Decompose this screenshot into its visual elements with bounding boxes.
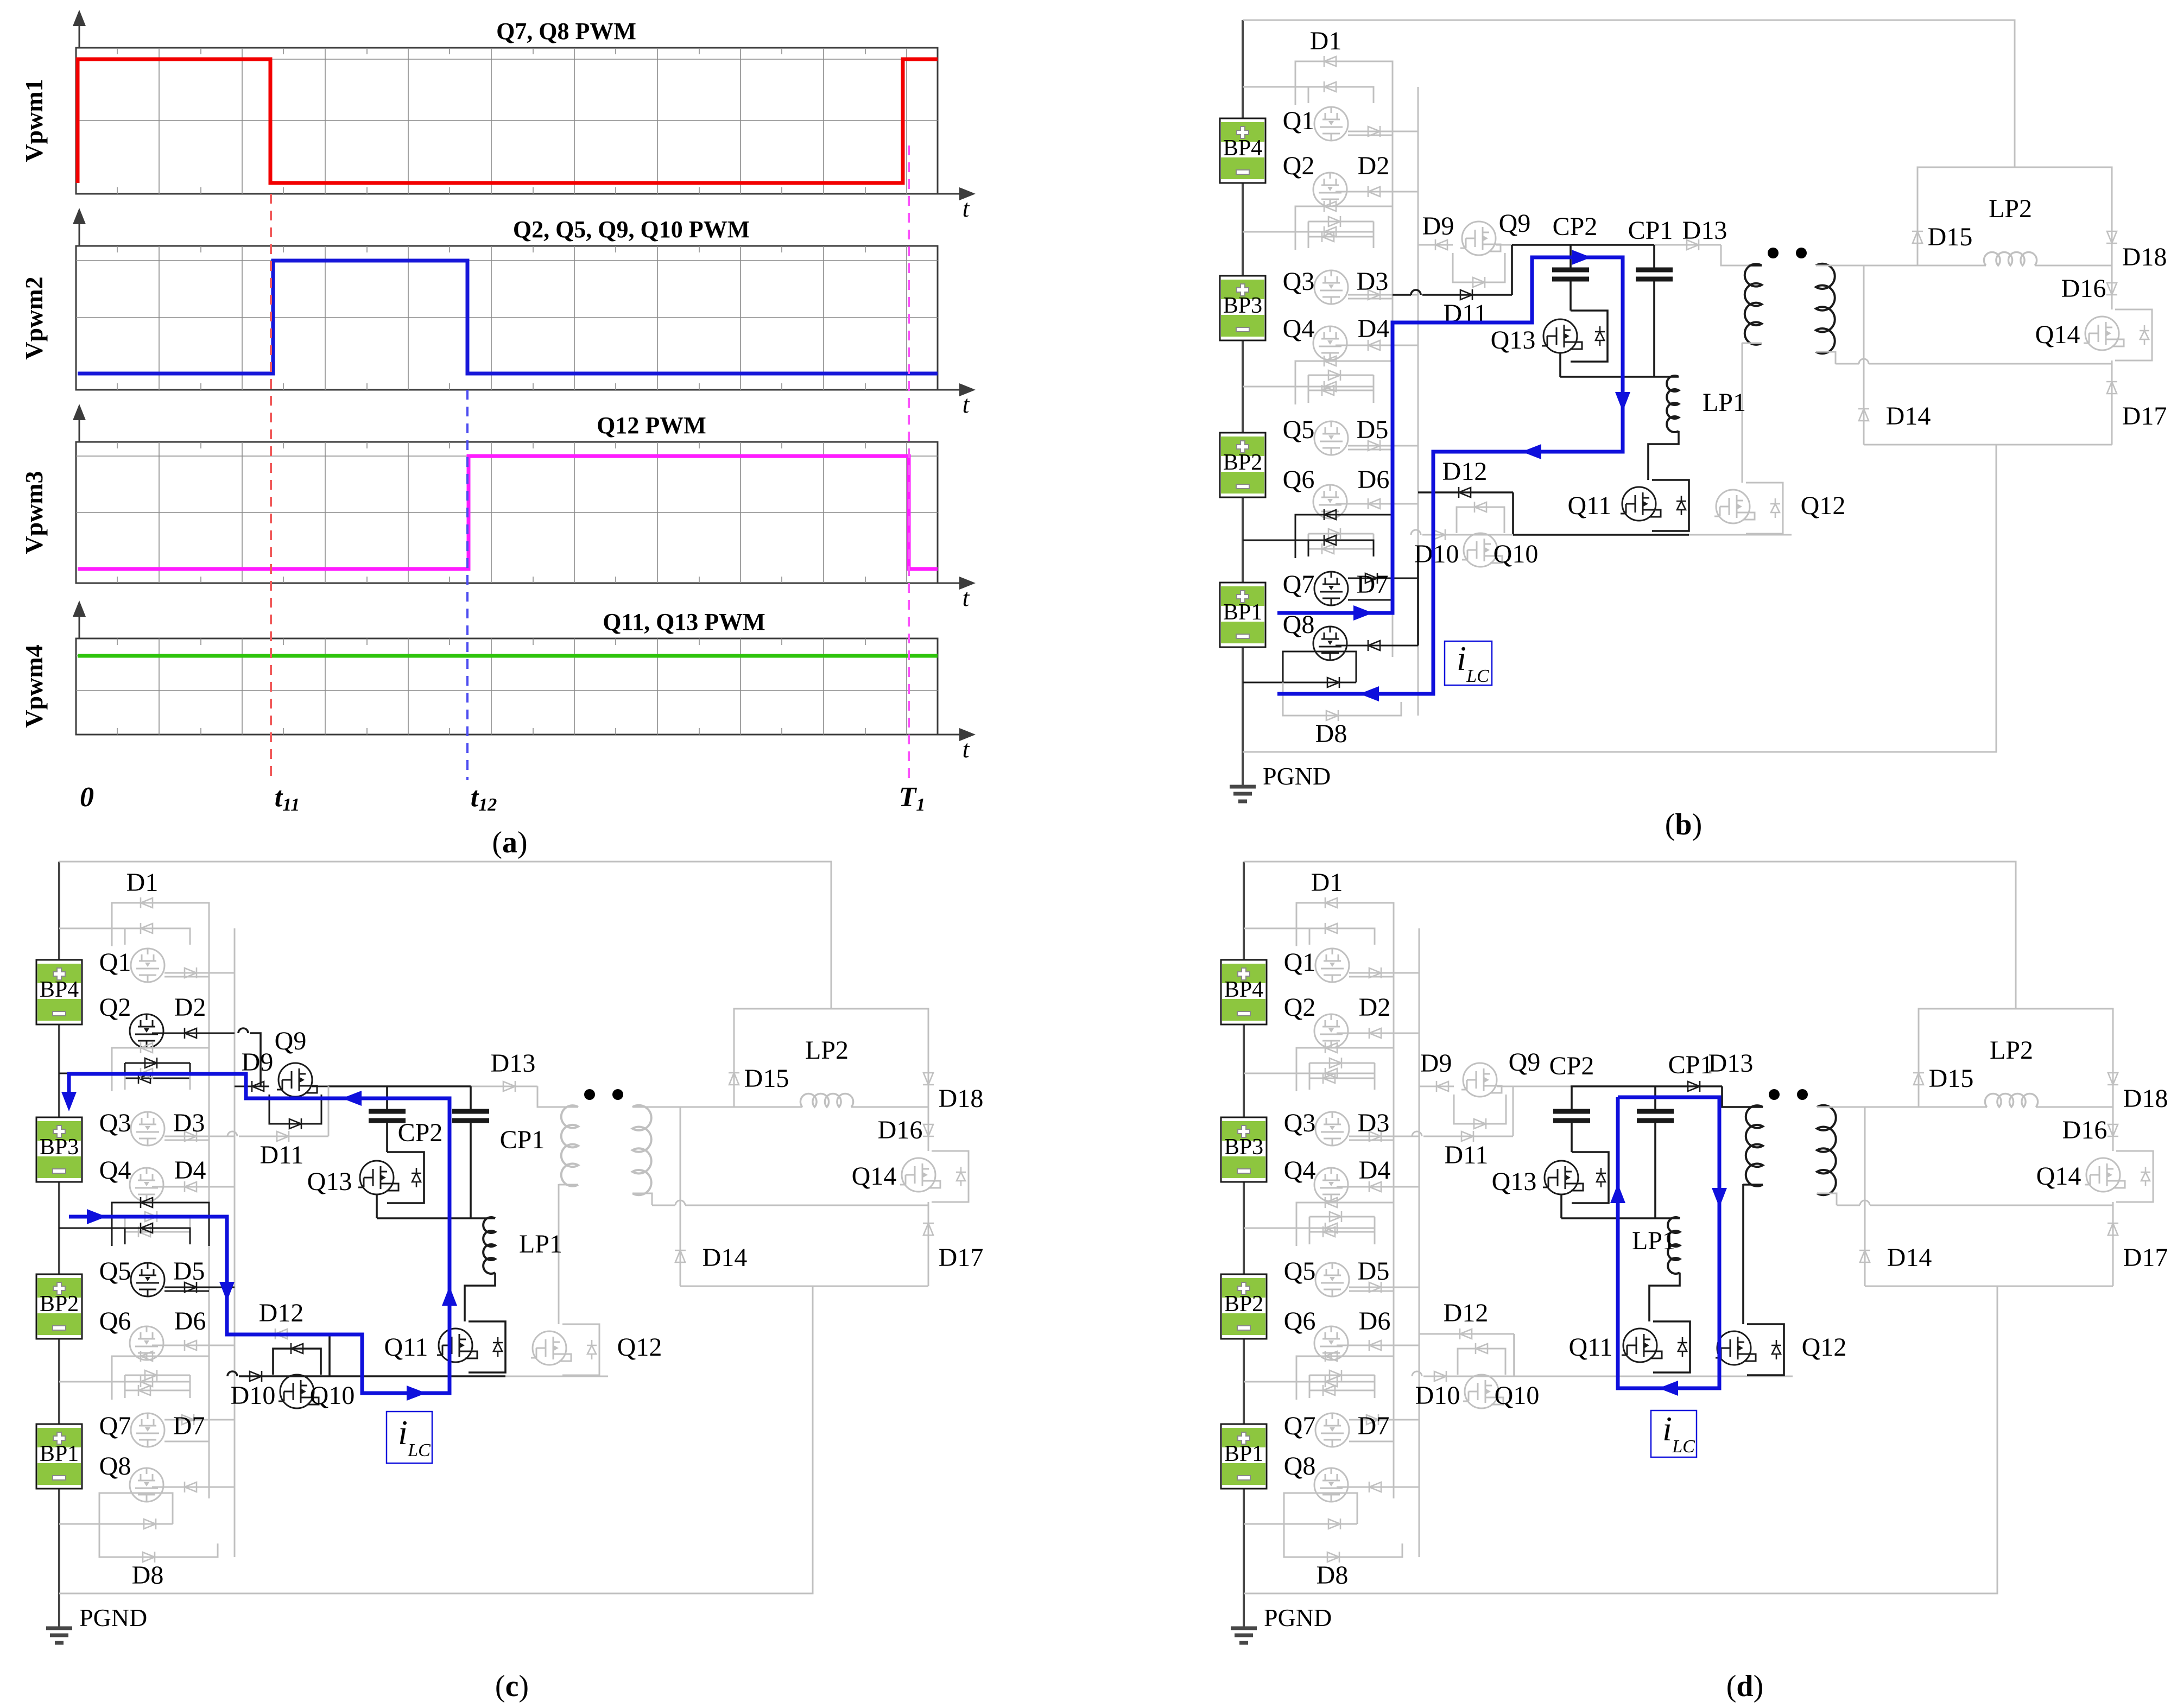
label D13 bbox=[1708, 1049, 1754, 1078]
diode D9 bbox=[1436, 1081, 1448, 1092]
wire top bus bbox=[59, 862, 831, 1009]
svg-text:Q9: Q9 bbox=[1509, 1048, 1541, 1077]
label D1 bbox=[1310, 27, 1342, 55]
wire loop bbox=[1309, 1217, 1375, 1232]
diode Q11 body bbox=[1678, 1337, 1687, 1357]
diode Q11 body bbox=[493, 1337, 503, 1357]
svg-text:Q2, Q5, Q9, Q10 PWM: Q2, Q5, Q9, Q10 PWM bbox=[513, 216, 750, 243]
wire bbox=[1394, 1136, 1412, 1137]
svg-text:LP1: LP1 bbox=[519, 1230, 562, 1258]
label CP1 bbox=[500, 1125, 545, 1154]
svg-text:BP2: BP2 bbox=[1223, 450, 1262, 475]
wire bbox=[1648, 431, 1679, 480]
wire top bus bbox=[1244, 862, 2016, 1009]
transistor Q3 bbox=[1315, 1112, 1349, 1146]
svg-text:Q1: Q1 bbox=[1284, 948, 1316, 977]
wire ladder rail A bbox=[1393, 903, 1395, 1498]
wire D12 vert bbox=[1512, 492, 1514, 535]
wire bbox=[164, 1136, 235, 1137]
wire secondary link bbox=[652, 1205, 675, 1206]
label D5 bbox=[173, 1257, 205, 1286]
diode ladder bbox=[141, 1351, 153, 1362]
svg-text:D13: D13 bbox=[1708, 1049, 1754, 1078]
wire loop Q9 bbox=[1454, 1095, 1506, 1124]
svg-text:CP1: CP1 bbox=[1628, 216, 1673, 245]
x axis arrow bbox=[938, 583, 966, 584]
wire bbox=[465, 1273, 495, 1321]
label D3 bbox=[1357, 267, 1389, 296]
label LP1 bbox=[1632, 1226, 1675, 1255]
polarity dot bbox=[1769, 1089, 1780, 1100]
wire loop D8 bbox=[1284, 1524, 1402, 1557]
svg-text:Q9: Q9 bbox=[275, 1027, 307, 1055]
label CP2 bbox=[1553, 212, 1598, 241]
wire bbox=[2112, 1107, 2114, 1151]
diode ladder bbox=[1323, 1385, 1335, 1396]
wire loop bbox=[1309, 1062, 1375, 1064]
svg-text:D14: D14 bbox=[1887, 1243, 1932, 1272]
diode ladder bbox=[141, 923, 153, 934]
wire bbox=[1560, 376, 1654, 378]
transistor Q10 bbox=[1463, 1375, 1503, 1408]
label Q6 bbox=[1283, 465, 1315, 494]
wire bbox=[559, 1184, 578, 1186]
wire bbox=[1349, 1140, 1394, 1141]
wire bbox=[1336, 345, 1418, 346]
label D16 bbox=[2061, 274, 2106, 303]
diode ladder bbox=[138, 1073, 150, 1084]
diode D12 bbox=[1460, 1329, 1472, 1339]
svg-text:Q2: Q2 bbox=[1284, 993, 1316, 1022]
label D2 bbox=[1358, 151, 1390, 180]
transistor Q7 bbox=[1314, 572, 1348, 605]
transistor Q8 bbox=[130, 1468, 163, 1502]
wire D10 row bbox=[239, 1375, 330, 1377]
wire bbox=[250, 1033, 261, 1086]
diode ladder bbox=[1325, 897, 1337, 908]
label Q3 bbox=[99, 1109, 131, 1137]
wire loop bbox=[125, 1217, 190, 1232]
svg-text:CP1: CP1 bbox=[500, 1125, 545, 1154]
wire bbox=[1571, 1121, 1573, 1152]
wire rail seg bbox=[1417, 552, 1419, 646]
wire loop bbox=[1309, 1375, 1375, 1390]
wire bbox=[152, 1186, 235, 1188]
wire loop Q9 bbox=[1453, 253, 1505, 282]
svg-text:LP1: LP1 bbox=[1703, 388, 1746, 417]
wire bbox=[632, 1193, 652, 1205]
diode D12 bbox=[1459, 487, 1471, 498]
junction hop bbox=[1859, 359, 1869, 364]
wire bbox=[1336, 503, 1418, 505]
wire D14 leg bbox=[1864, 1107, 1866, 1286]
svg-text:D17: D17 bbox=[2122, 402, 2167, 431]
label D2 bbox=[1359, 993, 1391, 1022]
label D9 bbox=[1422, 212, 1454, 241]
label D12 bbox=[259, 1299, 304, 1327]
wire bbox=[1337, 1186, 1419, 1188]
diode D18 bbox=[923, 1073, 934, 1085]
wire LP2 row bbox=[1864, 265, 1986, 267]
wire bbox=[1349, 976, 1394, 978]
svg-text:Q11: Q11 bbox=[1569, 1333, 1613, 1362]
svg-text:D6: D6 bbox=[174, 1307, 206, 1336]
svg-text:i: i bbox=[1457, 639, 1466, 678]
label Q6 bbox=[99, 1307, 131, 1336]
svg-text:Q14: Q14 bbox=[2036, 1162, 2081, 1191]
wire loop bbox=[1296, 1356, 1394, 1400]
wire D11 row bbox=[1423, 1136, 1513, 1137]
svg-text:Q1: Q1 bbox=[1283, 106, 1315, 135]
dashed cursor t12 bbox=[466, 390, 469, 780]
label Q2 bbox=[1283, 151, 1315, 180]
diode ladder bbox=[1324, 201, 1336, 212]
svg-text:t: t bbox=[963, 194, 970, 222]
svg-text:D8: D8 bbox=[132, 1561, 164, 1590]
svg-text:D5: D5 bbox=[1357, 415, 1389, 444]
wire loop bbox=[1309, 1375, 1375, 1376]
svg-text:D3: D3 bbox=[1357, 267, 1389, 296]
transistor Q4 bbox=[1313, 326, 1347, 360]
label D11 bbox=[260, 1141, 304, 1169]
svg-text:Q8: Q8 bbox=[1284, 1452, 1316, 1481]
diode ladder bbox=[1330, 1058, 1341, 1068]
wire loop Q8 bbox=[1284, 1493, 1357, 1524]
wire loop bbox=[125, 1228, 190, 1244]
polarity dot bbox=[612, 1089, 623, 1100]
wire src row bbox=[330, 1375, 505, 1377]
diode D10 bbox=[1433, 529, 1445, 540]
transistor Q12 bbox=[531, 1331, 571, 1365]
plot frame Vpwm3 bbox=[76, 442, 938, 583]
label Q11 bbox=[384, 1333, 428, 1362]
wire bbox=[505, 1376, 608, 1377]
svg-text:LP2: LP2 bbox=[1989, 194, 2032, 223]
wire bottom bus bbox=[1243, 445, 1996, 752]
svg-text:Q3: Q3 bbox=[99, 1109, 131, 1137]
svg-text:D10: D10 bbox=[231, 1381, 276, 1410]
wire loop bbox=[112, 1203, 209, 1246]
transformer primary bbox=[1746, 1105, 1763, 1186]
wire bbox=[1336, 645, 1418, 647]
label Q14 bbox=[2035, 320, 2080, 349]
label i_LC box (c) bbox=[387, 1412, 432, 1463]
wire top bus bbox=[1243, 20, 2015, 167]
diode Q14 body bbox=[2140, 325, 2149, 345]
svg-text:t: t bbox=[963, 390, 970, 418]
svg-text:PGND: PGND bbox=[1263, 762, 1331, 790]
label D4 bbox=[174, 1156, 206, 1185]
waveform Vpwm2 bbox=[78, 261, 938, 374]
label D18 bbox=[939, 1084, 984, 1113]
svg-text:Q1: Q1 bbox=[99, 948, 131, 977]
label D9 bbox=[1420, 1049, 1452, 1078]
wire loop Q14 bbox=[932, 1151, 969, 1202]
wire loop bbox=[1296, 1203, 1394, 1246]
transistor Q9 bbox=[277, 1063, 317, 1097]
wire loop bbox=[112, 1356, 209, 1400]
wire bbox=[1816, 265, 1864, 267]
diode D18 bbox=[2108, 1073, 2118, 1085]
x axis arrow bbox=[938, 193, 966, 195]
svg-text:D18: D18 bbox=[2123, 1084, 2168, 1113]
transistor Q5 bbox=[1315, 1263, 1349, 1296]
transistor Q6 bbox=[130, 1326, 163, 1360]
diode ladder bbox=[1324, 226, 1336, 237]
svg-text:Q4: Q4 bbox=[1283, 314, 1315, 343]
svg-text:Vpwm3: Vpwm3 bbox=[20, 471, 48, 554]
diode Q13 body bbox=[1595, 326, 1605, 346]
diode D6x bbox=[1369, 1340, 1381, 1351]
svg-text:(d): (d) bbox=[1726, 1669, 1763, 1703]
diode ladder bbox=[141, 1197, 153, 1208]
wire loop bbox=[125, 1063, 190, 1078]
wire loop Q8 bbox=[99, 1493, 173, 1524]
current path i_LC bbox=[1610, 1097, 1727, 1396]
svg-text:BP3: BP3 bbox=[40, 1135, 79, 1160]
current path i_LC bbox=[61, 1074, 457, 1401]
wire bbox=[1560, 1194, 1562, 1218]
polarity dot bbox=[584, 1089, 595, 1100]
plot frame Vpwm2 bbox=[76, 246, 938, 390]
transistor Q3 bbox=[1314, 270, 1348, 304]
wire tap bbox=[59, 1228, 125, 1229]
diode ladder bbox=[1368, 440, 1380, 451]
label D15 bbox=[1928, 223, 1973, 251]
capacitor CP2 bbox=[1552, 270, 1589, 279]
label LP1 bbox=[1703, 388, 1746, 417]
svg-text:PGND: PGND bbox=[79, 1604, 147, 1631]
wire bbox=[1337, 1345, 1419, 1346]
wire bbox=[1336, 191, 1418, 193]
label D10 bbox=[1414, 540, 1459, 568]
label Q8 bbox=[99, 1452, 131, 1481]
svg-text:Q11, Q13 PWM: Q11, Q13 PWM bbox=[603, 609, 765, 635]
transformer secondary bbox=[1816, 264, 1835, 353]
svg-text:LP2: LP2 bbox=[1990, 1036, 2033, 1065]
wire loop Q11 bbox=[1653, 1321, 1690, 1372]
svg-text:D5: D5 bbox=[173, 1257, 205, 1286]
label D8 bbox=[132, 1561, 164, 1590]
svg-text:D4: D4 bbox=[1358, 314, 1390, 343]
svg-text:Q12: Q12 bbox=[1801, 491, 1846, 520]
wire loop bbox=[125, 1382, 190, 1398]
wire src row bbox=[1513, 534, 1689, 536]
junction hop bbox=[1411, 530, 1421, 535]
label Q7 bbox=[99, 1412, 131, 1440]
label Q10 bbox=[1493, 540, 1539, 568]
svg-text:Q4: Q4 bbox=[1284, 1156, 1316, 1185]
ground PGND bbox=[1230, 787, 1256, 801]
svg-text:Q13: Q13 bbox=[1492, 1167, 1537, 1196]
label Q1 bbox=[99, 948, 131, 977]
transistor Q6 bbox=[1313, 485, 1347, 518]
label D4 bbox=[1359, 1156, 1391, 1185]
label CP1 bbox=[1668, 1051, 1713, 1079]
diode D13 bbox=[1688, 1081, 1700, 1092]
wire bbox=[1393, 294, 1411, 296]
label D18 bbox=[2122, 243, 2167, 271]
svg-text:D6: D6 bbox=[1359, 1307, 1391, 1336]
wire loop Q13 bbox=[1571, 311, 1608, 362]
label D3 bbox=[1358, 1109, 1390, 1137]
label D17 bbox=[2122, 402, 2167, 431]
diode ladder bbox=[144, 1519, 156, 1529]
svg-text:D15: D15 bbox=[1928, 223, 1973, 251]
diode Q9 body bbox=[1473, 277, 1485, 288]
diode ladder bbox=[1325, 1042, 1337, 1053]
label Q4 bbox=[1283, 314, 1315, 343]
label Q3 bbox=[1283, 267, 1315, 296]
wire bbox=[1496, 244, 1512, 246]
svg-text:D18: D18 bbox=[2122, 243, 2167, 271]
wire D14 leg bbox=[680, 1107, 681, 1286]
diode ladder bbox=[141, 1376, 153, 1387]
diode ladder bbox=[1328, 370, 1340, 381]
label D3 bbox=[173, 1109, 205, 1137]
wire tap bbox=[59, 1381, 125, 1383]
wire loop bbox=[1295, 361, 1393, 404]
diode ladder bbox=[141, 1042, 153, 1053]
wire left bus bbox=[1243, 862, 1245, 1628]
diode ladder bbox=[1325, 1223, 1337, 1233]
junction hop bbox=[1412, 1371, 1422, 1376]
diode ladder bbox=[1322, 231, 1334, 242]
grid bbox=[76, 442, 938, 583]
svg-text:D12: D12 bbox=[259, 1299, 304, 1327]
svg-text:LC: LC bbox=[407, 1440, 431, 1460]
wire bbox=[386, 1086, 388, 1111]
label Q5 bbox=[1283, 415, 1315, 444]
svg-text:(a): (a) bbox=[492, 826, 527, 859]
wire loop Q9 bbox=[269, 1095, 321, 1124]
svg-text:D2: D2 bbox=[1358, 151, 1390, 180]
ground PGND bbox=[1231, 1628, 1257, 1643]
wire bbox=[164, 976, 209, 978]
svg-text:D13: D13 bbox=[1682, 216, 1727, 245]
diode D11 bbox=[1460, 289, 1472, 300]
wire D12 row bbox=[235, 1333, 330, 1335]
label D5 bbox=[1357, 415, 1389, 444]
wire bbox=[471, 1217, 495, 1219]
svg-text:t: t bbox=[963, 584, 970, 611]
wire tap bbox=[1244, 1381, 1309, 1383]
svg-text:BP2: BP2 bbox=[1224, 1292, 1263, 1317]
label Q5 bbox=[1284, 1257, 1316, 1286]
wire bbox=[1655, 1217, 1680, 1219]
wire loop Q10 bbox=[1458, 1349, 1505, 1375]
wire bbox=[1817, 1193, 1837, 1205]
junction hop bbox=[1412, 1131, 1422, 1136]
battery BP1 bbox=[1221, 1424, 1267, 1489]
svg-text:Q2: Q2 bbox=[99, 993, 131, 1022]
label D14 bbox=[1887, 1243, 1932, 1272]
label Q12 bbox=[1802, 1333, 1847, 1362]
wire D9 row bbox=[235, 1086, 269, 1087]
junction hop bbox=[1411, 290, 1421, 295]
wire D11 vert bbox=[328, 1086, 330, 1136]
diode ladder bbox=[185, 967, 197, 978]
transistor Q13 bbox=[1542, 319, 1582, 353]
svg-text:D3: D3 bbox=[1358, 1109, 1390, 1137]
transistor Q12 bbox=[1716, 1331, 1756, 1365]
wire bbox=[152, 1033, 235, 1034]
plot frame Vpwm4 bbox=[76, 638, 938, 735]
transistor Q7 bbox=[1315, 1413, 1349, 1447]
wire top node bbox=[328, 1085, 386, 1087]
battery BP1 bbox=[1220, 583, 1265, 647]
waveform Vpwm3 bbox=[78, 456, 938, 569]
svg-text:BP4: BP4 bbox=[1223, 136, 1262, 161]
dashed cursor t11 bbox=[270, 194, 272, 780]
label D6 bbox=[174, 1307, 206, 1336]
transistor Q8 bbox=[1313, 627, 1347, 660]
wire D10 row bbox=[1422, 534, 1513, 536]
wire loop bbox=[1295, 61, 1393, 105]
wire loop Q12 bbox=[1746, 483, 1783, 534]
wire D11 vert bbox=[1511, 245, 1513, 295]
diode D16 bbox=[2106, 283, 2117, 295]
diode ladder bbox=[141, 1068, 153, 1079]
label i_LC box (d) bbox=[1651, 1409, 1697, 1457]
inductor LP1 bbox=[483, 1217, 495, 1274]
diode ladder bbox=[185, 1282, 197, 1293]
diode D4x bbox=[1369, 1181, 1381, 1192]
svg-text:BP4: BP4 bbox=[1224, 977, 1263, 1002]
battery BP3 bbox=[36, 1117, 82, 1182]
diode Q14 body bbox=[956, 1167, 966, 1186]
diode D11 bbox=[1461, 1131, 1473, 1142]
label Q10 bbox=[310, 1381, 355, 1410]
wire loop bbox=[1309, 1073, 1375, 1090]
capacitor CP1 bbox=[1636, 270, 1673, 279]
label Q13 bbox=[1491, 326, 1536, 355]
wire ladder rail B bbox=[234, 928, 236, 1557]
capacitor CP2 bbox=[369, 1111, 406, 1121]
label Q5 bbox=[99, 1257, 131, 1286]
waveform Vpwm4 bbox=[78, 654, 938, 658]
wire tap bbox=[1244, 1073, 1309, 1074]
diode D14 bbox=[1859, 1250, 1870, 1262]
wire loop bbox=[112, 903, 209, 946]
wire bbox=[537, 1086, 565, 1107]
svg-text:D6: D6 bbox=[1358, 465, 1390, 494]
diode D14 bbox=[675, 1250, 686, 1262]
wire loop Q10 bbox=[1457, 507, 1504, 533]
wire bbox=[1348, 298, 1393, 300]
wire top node bbox=[1570, 244, 1654, 246]
diode D6x bbox=[185, 1482, 197, 1492]
label D9 bbox=[242, 1048, 274, 1077]
diode ladder bbox=[1323, 1226, 1335, 1237]
wire loop bbox=[1308, 232, 1374, 248]
diode D2x bbox=[1368, 186, 1380, 197]
diode D17 bbox=[2108, 1223, 2118, 1235]
transistor Q5 bbox=[131, 1263, 164, 1296]
label Q4 bbox=[1284, 1156, 1316, 1185]
wire D12 vert bbox=[1513, 1334, 1515, 1376]
wire loop bbox=[1295, 515, 1393, 558]
svg-text:D10: D10 bbox=[1414, 540, 1459, 568]
label D15 bbox=[1929, 1064, 1974, 1093]
diode D8 bbox=[1327, 1552, 1339, 1562]
label CP2 bbox=[1549, 1052, 1594, 1080]
svg-text:Q11: Q11 bbox=[384, 1333, 428, 1362]
junction hop bbox=[227, 1131, 237, 1136]
wire loop Q11 bbox=[469, 1321, 505, 1372]
transistor Q10 bbox=[1462, 533, 1502, 567]
wire LP2 box top bbox=[1919, 1009, 2113, 1107]
